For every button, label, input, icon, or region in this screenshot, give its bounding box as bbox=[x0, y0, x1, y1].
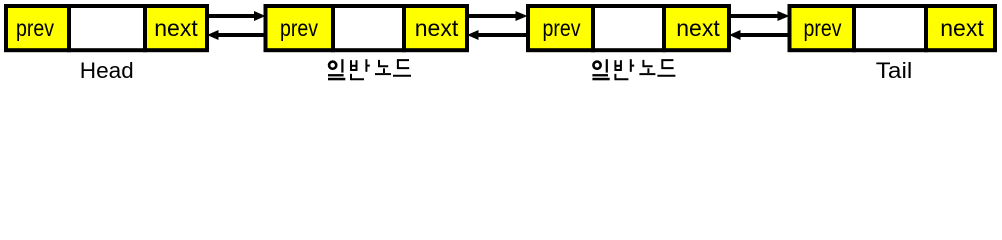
node 3 middle cell bbox=[593, 6, 664, 50]
syllable 반: bieup bottom bar bbox=[615, 69, 621, 71]
node 1 next cell bbox=[145, 6, 207, 50]
svg-text:next: next bbox=[154, 15, 198, 41]
syllable 드: digeut bbox=[662, 60, 673, 68]
svg-text:prev: prev bbox=[16, 15, 54, 41]
syllable 노: vowel o bar bbox=[639, 73, 655, 75]
syllable 반: bieup left vertical bbox=[614, 60, 616, 71]
syllable 노: nieun bbox=[643, 60, 652, 66]
svg-text:Head: Head bbox=[80, 58, 134, 83]
label "일반 노드" under node 3 (drawn as vector strokes) bbox=[592, 59, 675, 80]
syllable 반: vowel a vertical bbox=[365, 59, 367, 72]
syllable 반: bieup bottom bar bbox=[351, 69, 357, 71]
node 4 middle cell bbox=[854, 6, 926, 50]
syllable 반: nieun batchim bbox=[615, 74, 628, 79]
syllable 반: bieup middle bar bbox=[615, 65, 621, 67]
syllable 반: bieup left vertical bbox=[350, 60, 352, 71]
syllable 반: vowel a tick bbox=[631, 65, 634, 67]
syllable 노: nieun bbox=[379, 60, 388, 66]
arrow node2->node3 (top, right-pointing) bbox=[469, 11, 528, 21]
node 4 (Tail) prev cell bbox=[790, 6, 855, 50]
syllable 일: rieul batchim upper band bbox=[592, 74, 608, 76]
arrow node3->node2 (bottom, left-pointing) bbox=[467, 30, 526, 40]
arrow node2->node1 (bottom, left-pointing) bbox=[207, 30, 264, 40]
svg-text:next: next bbox=[940, 15, 984, 41]
node 2 next cell bbox=[404, 6, 467, 50]
label "일반 노드" under node 2 (drawn as vector strokes) bbox=[328, 59, 411, 80]
svg-text:prev: prev bbox=[543, 15, 581, 41]
svg-text:next: next bbox=[415, 15, 459, 41]
svg-text:Tail: Tail bbox=[876, 58, 913, 83]
syllable 반: bieup right vertical bbox=[356, 60, 358, 71]
syllable 드: vowel eu bar bbox=[657, 75, 675, 77]
syllable 반: bieup right vertical bbox=[620, 60, 622, 71]
syllable 일: rieul batchim upper band bbox=[328, 74, 344, 76]
syllable 일: vowel i vertical bbox=[341, 59, 343, 72]
syllable 반: vowel a vertical bbox=[630, 59, 632, 72]
node 4 next cell bbox=[926, 6, 995, 50]
syllable 일: rieul batchim lower band bbox=[328, 78, 345, 81]
svg-text:prev: prev bbox=[280, 15, 318, 41]
syllable 드: digeut bbox=[398, 60, 409, 68]
node 3 next cell bbox=[664, 6, 729, 50]
node 2 prev cell bbox=[266, 6, 334, 50]
arrow node1->node2 (top, right-pointing) bbox=[209, 11, 266, 21]
arrow node4->node3 (bottom, left-pointing) bbox=[729, 30, 788, 40]
syllable 노: vowel o stem bbox=[383, 68, 385, 73]
node 3 prev cell bbox=[528, 6, 593, 50]
syllable 일: ieung circle bbox=[593, 62, 600, 69]
syllable 일: ieung circle bbox=[329, 62, 336, 69]
syllable 반: vowel a tick bbox=[366, 65, 369, 67]
arrow node3->node4 (top, right-pointing) bbox=[731, 11, 790, 21]
syllable 일: rieul batchim lower band bbox=[592, 78, 609, 81]
syllable 드: vowel eu bar bbox=[393, 75, 411, 77]
node 1 (Head) prev cell bbox=[6, 6, 69, 50]
syllable 노: vowel o stem bbox=[647, 68, 649, 73]
syllable 일: vowel i vertical bbox=[606, 59, 608, 72]
svg-text:prev: prev bbox=[804, 15, 842, 41]
svg-text:next: next bbox=[676, 15, 720, 41]
node 1 middle cell bbox=[69, 6, 145, 50]
syllable 반: bieup middle bar bbox=[351, 65, 357, 67]
node 2 middle cell bbox=[333, 6, 404, 50]
syllable 노: vowel o bar bbox=[375, 73, 391, 75]
syllable 반: nieun batchim bbox=[351, 74, 364, 79]
